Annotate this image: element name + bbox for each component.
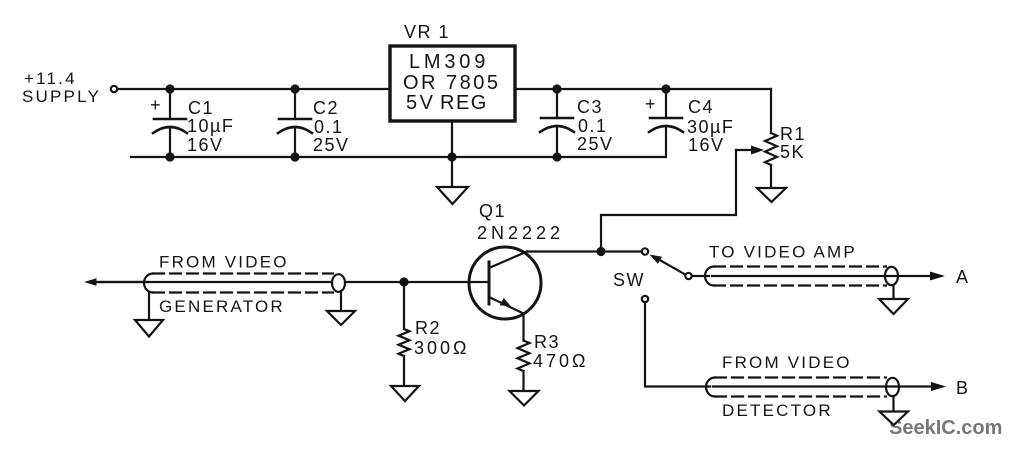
- capacitor C1: [150, 89, 234, 157]
- wire bottom rail: [131, 156, 666, 158]
- capacitor C4: [645, 89, 734, 157]
- svg-text:5K: 5K: [780, 142, 805, 162]
- svg-text:5V: 5V: [406, 92, 435, 114]
- wire emitter lead: [522, 314, 524, 341]
- wiper arrow of R1: [736, 146, 764, 155]
- svg-text:0.1: 0.1: [314, 117, 344, 137]
- ground coax1 right: [327, 311, 355, 325]
- wire R1 wiper to collector node: [601, 150, 736, 247]
- svg-text:Q1: Q1: [479, 201, 506, 221]
- resistor R1 5K potentiometer: [765, 124, 806, 188]
- svg-text:C3: C3: [577, 97, 603, 117]
- label SW: [613, 270, 645, 290]
- svg-text:GENERATOR: GENERATOR: [159, 297, 285, 316]
- node junction dot C4 top: [661, 84, 670, 93]
- svg-text:C4: C4: [688, 97, 714, 117]
- svg-text:SW: SW: [613, 270, 645, 290]
- svg-text:C2: C2: [313, 98, 339, 118]
- svg-text:+11.4: +11.4: [24, 69, 77, 88]
- svg-text:25V: 25V: [577, 134, 614, 154]
- wire coax3 shield to ground: [892, 396, 894, 412]
- wire left arrow to coax1: [96, 281, 148, 283]
- node junction dot VR1 ground rail: [447, 152, 456, 161]
- coax cable FROM VIDEO DETECTOR: [706, 353, 933, 420]
- switch throw contact A: [685, 273, 691, 279]
- svg-text:DETECTOR: DETECTOR: [722, 401, 833, 420]
- svg-text:VR 1: VR 1: [404, 22, 450, 42]
- wire coax1 to base: [345, 281, 487, 283]
- svg-text:TO VIDEO AMP: TO VIDEO AMP: [709, 243, 857, 262]
- arrow output to left (from video generator): [84, 278, 97, 286]
- svg-text:10µF: 10µF: [187, 116, 234, 136]
- node junction dot C2 bottom: [290, 152, 299, 161]
- ground R2: [391, 386, 419, 401]
- capacitor C2: [278, 89, 350, 157]
- wire top rail right (VR1 to corner): [516, 88, 771, 90]
- ground coax1 left: [135, 320, 163, 337]
- svg-text:30µF: 30µF: [687, 117, 734, 137]
- svg-text:SUPPLY: SUPPLY: [22, 87, 101, 106]
- svg-text:R2: R2: [415, 318, 441, 338]
- svg-text:REG: REG: [440, 92, 488, 114]
- svg-text:R3: R3: [534, 332, 560, 352]
- svg-text:16V: 16V: [187, 135, 224, 155]
- transistor Q1 2N2222: [469, 201, 564, 319]
- terminal open circle supply input: [111, 86, 117, 92]
- svg-text:OR 7805: OR 7805: [403, 72, 501, 94]
- arrow output B: [931, 382, 946, 391]
- coax cable FROM VIDEO GENERATOR: [99, 253, 345, 317]
- ground R3: [510, 391, 539, 406]
- wire R1 top lead: [770, 89, 772, 133]
- watermark SeekIC.com: [889, 417, 1002, 439]
- wire top rail left (terminal to VR1): [118, 88, 389, 90]
- node junction dot C3 top: [552, 84, 561, 93]
- svg-text:FROM VIDEO: FROM VIDEO: [722, 353, 852, 372]
- switch SW arm: [650, 255, 688, 276]
- svg-text:16V: 16V: [688, 135, 725, 155]
- node junction dot collector: [596, 247, 605, 256]
- wire coax1 left shield to ground: [148, 292, 150, 320]
- svg-text:LM309: LM309: [409, 51, 489, 73]
- node junction dot C1 top: [165, 84, 174, 93]
- resistor R2 300 ohm: [399, 282, 470, 386]
- svg-text:300Ω: 300Ω: [414, 338, 470, 358]
- svg-text:0.1: 0.1: [578, 116, 608, 136]
- label node A: [956, 267, 970, 287]
- wire throw B down and right to coax3: [645, 302, 710, 387]
- node junction dot C2 top: [290, 84, 299, 93]
- svg-text:FROM VIDEO: FROM VIDEO: [159, 253, 289, 272]
- svg-text:25V: 25V: [313, 135, 350, 155]
- svg-text:2N2222: 2N2222: [477, 223, 564, 243]
- capacitor C3: [540, 89, 614, 157]
- ground R1: [757, 188, 786, 202]
- wire VR1 ground lead: [451, 121, 453, 187]
- svg-text:+: +: [150, 95, 162, 115]
- wire throw A to coax2: [692, 275, 709, 277]
- wire collector to switch: [527, 250, 641, 252]
- svg-text:470Ω: 470Ω: [533, 351, 589, 371]
- svg-text:R1: R1: [780, 124, 806, 144]
- ground VR1: [437, 187, 468, 204]
- switch throw contact B: [642, 296, 648, 302]
- node junction dot R2 top: [399, 277, 408, 286]
- label node B: [956, 378, 970, 398]
- regulator VR1 box: [390, 22, 515, 121]
- node junction dot C1 bottom: [165, 152, 174, 161]
- resistor R3 470 ohm: [518, 332, 589, 391]
- svg-text:SeekIC.com: SeekIC.com: [889, 417, 1002, 439]
- wire coax1 right shield to ground: [340, 291, 342, 311]
- switch SW pole contact: [642, 248, 648, 254]
- svg-text:A: A: [956, 267, 970, 287]
- arrow output A: [930, 272, 945, 281]
- ground coax2: [879, 299, 908, 314]
- coax cable TO VIDEO AMP: [705, 243, 932, 286]
- svg-text:+: +: [645, 94, 657, 114]
- svg-text:C1: C1: [188, 98, 214, 118]
- wire coax2 shield to ground: [892, 285, 894, 299]
- ground coax3: [880, 412, 909, 426]
- node junction dot C3 bottom: [552, 152, 561, 161]
- node +11.4 SUPPLY label: [22, 69, 101, 106]
- svg-text:B: B: [956, 378, 970, 398]
